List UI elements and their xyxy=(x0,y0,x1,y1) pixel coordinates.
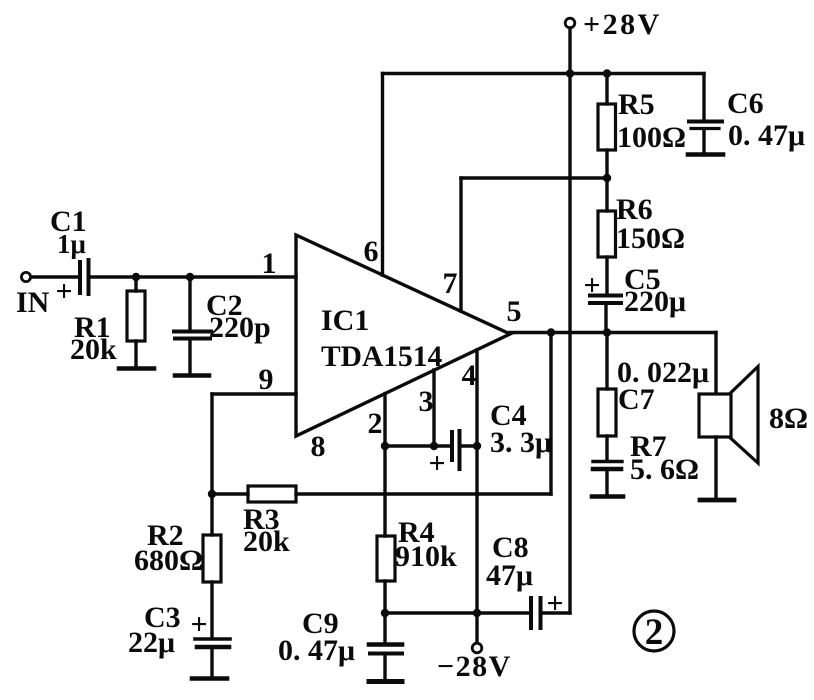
svg-text:7: 7 xyxy=(443,267,458,300)
wire pin 3 xyxy=(432,370,435,446)
wire C4 to pin 4 xyxy=(462,444,478,447)
svg-text:+: + xyxy=(55,275,72,308)
capacitor C7 xyxy=(598,333,616,460)
node junction pin4/C4 xyxy=(473,442,481,450)
capacitor C9 xyxy=(369,613,402,678)
wire pin 7 line xyxy=(461,178,607,311)
ground C6 xyxy=(688,152,723,157)
svg-text:8: 8 xyxy=(311,430,326,463)
svg-text:3. 3μ: 3. 3μ xyxy=(490,426,552,459)
node junction output/feedback xyxy=(547,328,555,336)
svg-text:5. 6Ω: 5. 6Ω xyxy=(630,453,699,486)
svg-text:+: + xyxy=(583,269,600,302)
node +28V terminal xyxy=(565,18,575,28)
svg-text:8Ω: 8Ω xyxy=(769,402,808,435)
capacitor C1 xyxy=(80,260,89,294)
wire feedback vertical xyxy=(549,333,552,495)
svg-text:2: 2 xyxy=(645,612,664,653)
node IN terminal xyxy=(21,272,30,281)
node junction R2/R3 xyxy=(208,490,216,498)
svg-text:100Ω: 100Ω xyxy=(617,121,686,154)
svg-text:2: 2 xyxy=(368,407,383,440)
ground C2 xyxy=(175,373,209,378)
wire C1 to pin 1 xyxy=(91,275,297,278)
figure number badge xyxy=(634,611,674,651)
wire output pin 5 xyxy=(510,331,716,334)
ground C3 xyxy=(192,676,227,681)
svg-text:+: + xyxy=(546,587,563,620)
svg-text:+28V: +28V xyxy=(583,8,662,41)
capacitor C6 xyxy=(689,74,722,153)
svg-text:−28V: −28V xyxy=(437,650,512,683)
resistor R2 xyxy=(203,494,221,637)
svg-text:4: 4 xyxy=(462,359,477,392)
ground R7 xyxy=(592,494,623,499)
svg-text:+: + xyxy=(428,447,445,480)
svg-text:0. 47μ: 0. 47μ xyxy=(728,119,805,152)
node junction pin4/-28V rail xyxy=(473,609,481,617)
resistor R3 xyxy=(212,486,296,502)
wire top supply rail xyxy=(383,72,705,75)
wire pin 9 xyxy=(212,394,296,494)
svg-text:680Ω: 680Ω xyxy=(134,544,203,577)
svg-text:+: + xyxy=(190,608,207,641)
svg-text:5: 5 xyxy=(507,295,522,328)
node junction output/C5 xyxy=(603,328,611,336)
svg-text:3: 3 xyxy=(419,385,434,418)
svg-text:1: 1 xyxy=(262,247,277,280)
wire +28V vertical xyxy=(568,28,571,613)
wire pin 6 xyxy=(381,74,384,276)
resistor R1 xyxy=(127,277,145,366)
svg-text:1μ: 1μ xyxy=(57,229,86,259)
capacitor C8 xyxy=(531,598,541,628)
wire speaker drop xyxy=(714,333,717,395)
node junction R4/C9 xyxy=(381,609,389,617)
resistor R4 xyxy=(377,536,395,613)
node junction R5/R6/pin7 xyxy=(603,174,611,182)
svg-text:IN: IN xyxy=(16,286,50,319)
ground C9 xyxy=(369,679,402,684)
node junction rail/R5 xyxy=(603,69,611,77)
svg-text:220μ: 220μ xyxy=(624,285,686,318)
capacitor C5 xyxy=(590,296,621,333)
svg-text:C6: C6 xyxy=(727,87,764,120)
svg-text:220p: 220p xyxy=(209,311,271,344)
node junction C2 xyxy=(186,273,194,281)
svg-text:20k: 20k xyxy=(243,525,290,558)
capacitor C3 xyxy=(195,639,230,676)
node junction R1 xyxy=(132,273,140,281)
ground speaker xyxy=(700,498,734,503)
svg-text:9: 9 xyxy=(259,363,274,396)
wire pin 2 xyxy=(383,394,386,447)
wire C4 row left xyxy=(385,444,449,447)
wire -28V rail xyxy=(385,611,570,614)
svg-text:IC1: IC1 xyxy=(321,304,369,337)
capacitor C2 xyxy=(174,277,211,373)
node junction pin3 xyxy=(430,442,438,450)
svg-text:20k: 20k xyxy=(70,333,117,366)
svg-text:150Ω: 150Ω xyxy=(616,222,685,255)
node junction pin2/C4 xyxy=(381,442,389,450)
resistor R5 xyxy=(598,74,616,179)
op-amp IC1 triangle xyxy=(296,235,510,436)
svg-text:R5: R5 xyxy=(618,88,655,121)
node junction rail/+28V xyxy=(566,69,574,77)
capacitor C4 xyxy=(452,431,460,469)
wire feedback horizontal xyxy=(296,492,551,495)
svg-text:6: 6 xyxy=(364,235,379,268)
wire pin 4 xyxy=(475,350,478,613)
ground R1 xyxy=(119,366,154,371)
resistor R7 xyxy=(593,462,622,495)
speaker LS xyxy=(699,367,758,499)
svg-text:910k: 910k xyxy=(395,540,457,573)
svg-text:C7: C7 xyxy=(618,383,655,416)
node -28V terminal xyxy=(472,613,482,653)
svg-text:22μ: 22μ xyxy=(128,626,175,659)
wire pin2 to R4 xyxy=(383,446,386,536)
resistor R6 xyxy=(598,178,616,293)
wire IN to C1 xyxy=(31,275,78,278)
svg-text:47μ: 47μ xyxy=(486,559,533,592)
svg-text:0. 47μ: 0. 47μ xyxy=(278,634,355,667)
svg-text:TDA1514: TDA1514 xyxy=(321,341,443,373)
